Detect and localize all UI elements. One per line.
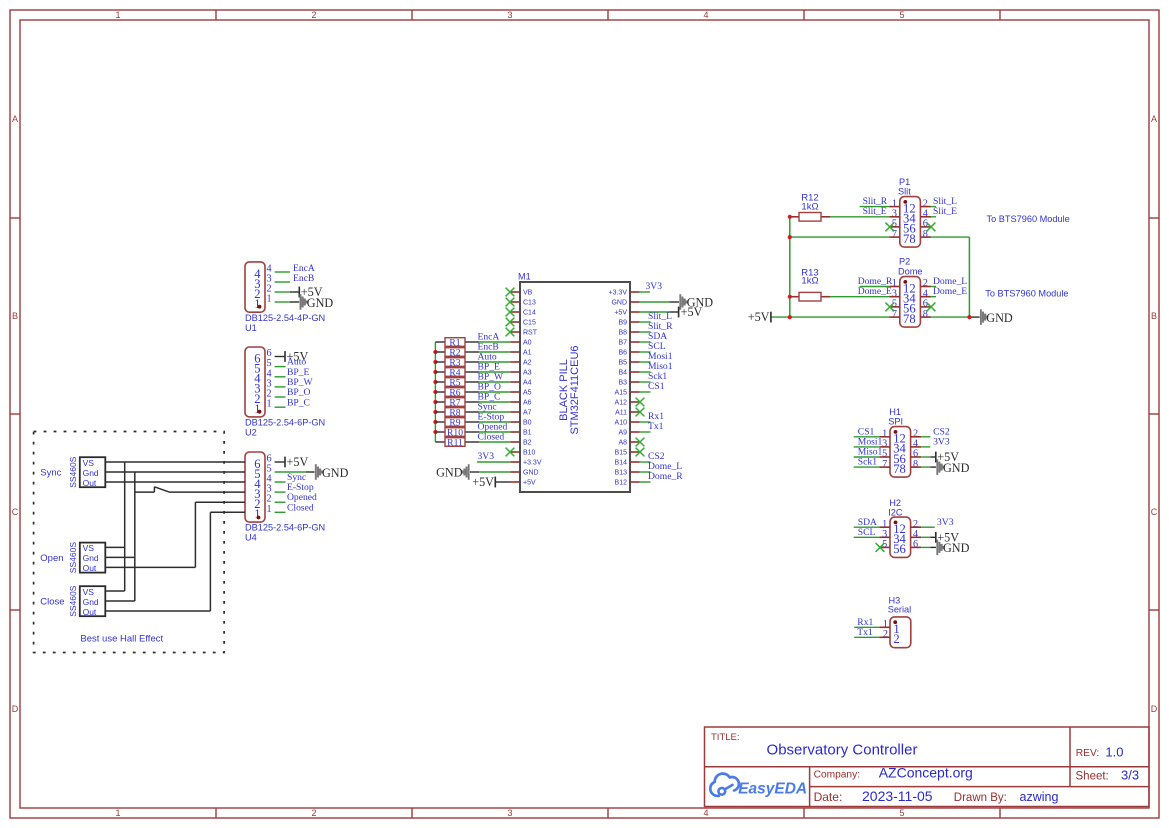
net label Rx1 on H3 pin 1 [854,617,879,628]
svg-text:B1: B1 [523,430,532,437]
svg-text:A8: A8 [618,440,627,447]
svg-text:B12: B12 [615,480,628,487]
net label EncA on U1 pin 4 [293,263,315,274]
resistor bus wire on left of R1-R11 [434,342,436,442]
svg-text:R11: R11 [447,437,463,448]
svg-text:2: 2 [883,629,888,640]
net label Miso1 on M1 pin B4 [640,361,673,372]
svg-text:B7: B7 [618,340,627,347]
no-connect X on P1 pin 6 [927,223,936,232]
svg-text:4: 4 [703,10,708,20]
svg-text:8: 8 [913,459,918,470]
net label Closed [478,432,505,443]
net label Slit_R on M1 pin B8 [640,321,674,332]
svg-text:EasyEDA: EasyEDA [738,781,807,798]
svg-text:1: 1 [267,504,272,515]
svg-text:Closed: Closed [478,432,505,443]
net label Dome_E on P2 pin 3 wire from R13 [830,286,892,297]
net label SCL on H2 pin 3 [854,527,880,538]
svg-text:3V3: 3V3 [933,437,950,448]
net label BP_C on U2 [287,397,310,408]
svg-text:P2: P2 [899,257,910,267]
svg-text:Company:: Company: [814,770,860,781]
svg-text:A7: A7 [523,410,532,417]
svg-text:REV:: REV: [1076,748,1099,759]
svg-text:1kΩ: 1kΩ [801,275,818,286]
svg-text:Tx1: Tx1 [857,627,873,638]
net label Tx1 on H3 pin 2 [854,627,879,638]
net label BP_E on U2 [287,367,310,378]
svg-text:Sck1: Sck1 [858,457,877,468]
svg-text:A9: A9 [618,430,627,437]
svg-text:+5V: +5V [472,475,494,489]
svg-text:DB125-2.54-4P-GN: DB125-2.54-4P-GN [245,313,325,323]
svg-text:EncB: EncB [293,273,314,284]
wire Gnd net from sensors to U4 pin 5 [105,472,245,601]
connector H1 SPI [879,407,921,477]
wire P1 pin 8 to GND bus [930,236,969,238]
no-connect X on H2 pin 5 [876,543,885,552]
net label Dome_R on P2 pin 1 [858,276,893,287]
svg-text:1.0: 1.0 [1105,744,1123,759]
svg-text:+5V: +5V [614,310,627,317]
net label 3V3 on H1 pin 4 [921,437,950,448]
svg-text:SS460S: SS460S [68,456,78,488]
svg-text:1: 1 [267,294,272,305]
svg-text:7: 7 [882,459,887,470]
GND flag left of M1 [436,464,469,480]
GND bus vertical wire right of P1 P2 [969,237,979,317]
svg-text:B3: B3 [618,380,627,387]
svg-text:Dome: Dome [898,267,923,277]
net label Slit_L on M1 pin B9 [640,311,673,322]
svg-text:B13: B13 [615,470,628,477]
svg-text:B6: B6 [618,350,627,357]
wire M1 GND pin to ground [640,301,679,303]
no-connect X marks on M1 right pins A12 A11 A8 B15 [636,398,645,457]
connector H2 I2C [879,498,921,557]
svg-text:Slit: Slit [898,187,911,197]
net label CS1 on H1 [854,426,880,437]
wire +5V bus to P1 pin 7 [790,236,889,238]
wire net Opened to M1 pin B1 [479,431,510,433]
svg-text:2023-11-05: 2023-11-05 [862,788,933,804]
ground symbol on U1 pin 1 [290,294,333,310]
net label Sync [478,402,497,413]
svg-text:Gnd: Gnd [83,597,99,607]
net label Tx1 on M1 pin A9 [640,421,664,432]
svg-text:B14: B14 [615,460,628,467]
ground symbol on M1 left pin GND [470,471,510,473]
net label BP_O [478,382,502,393]
wire net BP_W to M1 pin A4 [479,381,510,383]
wire sensor Sync Out to U4 pin 4 [105,481,245,483]
annotation To BTS7960 Module (Dome) [985,289,1068,299]
hall sensor B3 SS460S (Close) [40,585,105,617]
svg-text:GND: GND [943,541,970,555]
wire M1 +5V pin to +5V flag [640,311,679,313]
svg-text:3V3: 3V3 [646,281,663,292]
svg-text:Best use Hall Effect: Best use Hall Effect [80,634,163,645]
net label EncB on U1 pin 3 [293,273,314,284]
+5V power symbol right of M1 [679,305,703,319]
ground symbol on H1 pin 8 [921,459,969,475]
connector U2 DB125-2.54-6P-GN [245,347,325,438]
svg-text:Dome_E: Dome_E [858,286,892,297]
wire net Sync to M1 pin A7 [479,411,510,413]
svg-text:5: 5 [899,808,904,818]
svg-text:Gnd: Gnd [83,468,99,478]
svg-text:Serial: Serial [888,605,912,615]
svg-text:1: 1 [254,297,260,311]
svg-text:A6: A6 [523,400,532,407]
svg-text:2: 2 [311,808,316,818]
svg-text:To BTS7960 Module: To BTS7960 Module [985,289,1068,299]
wire sensor Close Out to U4 pin 1 [105,512,245,611]
no-connect X on P2 pin 6 [927,303,936,312]
svg-text:1: 1 [267,399,272,410]
ground symbol on U4 pin 5 [275,464,349,480]
resistor R4 [435,367,479,378]
svg-text:+3.3V: +3.3V [609,290,628,297]
svg-text:A15: A15 [615,390,628,397]
net label Sck1 on H1 [854,457,880,468]
svg-text:6: 6 [900,542,906,556]
svg-text:SS460S: SS460S [68,585,78,617]
svg-text:+5V: +5V [523,480,536,487]
net label CS2 on H1 pin 2 [921,426,950,437]
svg-text:VS: VS [83,587,95,597]
+5V power symbol on U4 pin 6 [275,455,309,469]
svg-text:GND: GND [436,466,463,480]
svg-text:4: 4 [703,808,708,818]
net label SCL on M1 pin B6 [640,341,666,352]
svg-text:GND: GND [611,300,627,307]
svg-text:A: A [12,114,18,124]
svg-text:3V3: 3V3 [478,451,495,462]
net label Auto [478,352,497,363]
svg-text:B: B [12,311,18,321]
svg-text:A3: A3 [523,370,532,377]
svg-text:Slit_E: Slit_E [863,206,887,217]
svg-text:Gnd: Gnd [83,553,99,563]
svg-text:3: 3 [507,808,512,818]
svg-text:C15: C15 [523,320,536,327]
svg-text:Tx1: Tx1 [648,421,664,432]
wire sensor Open Out to U4 pin 2 [105,502,245,567]
net label Dome_L on M1 pin B13 [640,461,683,472]
svg-text:2: 2 [893,632,899,646]
svg-text:GND: GND [986,311,1013,325]
svg-text:M1: M1 [518,272,531,282]
svg-text:D: D [12,704,19,714]
hall sensor B2 SS460S (Open) [40,542,105,574]
svg-text:B2: B2 [523,440,532,447]
ground symbol right of P2 [981,309,1013,325]
svg-text:DB125-2.54-6P-GN: DB125-2.54-6P-GN [245,523,325,533]
wire net BP_E to M1 pin A3 [479,371,510,373]
net label SDA on H2 pin 1 [854,517,880,528]
connector P2 Dome [889,257,931,328]
E-Stop switch wire to U4 pin 3 [135,487,245,493]
resistor R7 [435,397,479,408]
wire net E-Stop to M1 pin B0 [479,421,510,423]
net label Sync on U4 [287,472,306,483]
svg-text:Slit_E: Slit_E [933,206,957,217]
svg-text:8: 8 [909,232,915,246]
resistor R2 [435,347,479,358]
svg-text:Out: Out [83,607,97,617]
wire P2 pin 8 to GND [930,316,969,318]
svg-text:SS460S: SS460S [68,542,78,574]
net label BP_W on U2 [287,377,314,388]
no-connect X on P2 pin 5 [885,303,894,312]
svg-text:+5V: +5V [287,455,309,469]
svg-text:Closed: Closed [287,502,314,513]
svg-text:U1: U1 [245,323,257,333]
net label E-Stop [478,412,505,423]
svg-text:U4: U4 [245,533,257,543]
net label 3V3 on M1 left pin +3.3V [477,451,510,462]
connector H3 Serial [879,595,911,647]
M1 left pin stubs and pin names [510,290,542,487]
net label Rx1 on M1 pin A10 [640,411,665,422]
wire net EncA to M1 pin A0 [479,341,510,343]
svg-text:B9: B9 [618,320,627,327]
svg-text:2: 2 [311,10,316,20]
svg-text:A5: A5 [523,390,532,397]
net label Dome_E on P2 pin 4 [930,286,967,297]
wire net Auto to M1 pin A2 [479,361,510,363]
net label Slit_L on P1 pin 2 [930,196,957,207]
svg-text:+5V: +5V [748,310,770,324]
ground symbol on H2 pin 6 [921,540,969,556]
net label CS1 on M1 pin A15 [640,381,665,392]
connector U1 DB125-2.54-4P-GN [245,262,325,333]
+5V power symbol on U2 pin 6 [275,350,309,364]
svg-text:B8: B8 [618,330,627,337]
connector P1 Slit [889,177,931,247]
svg-text:C: C [12,507,19,517]
net label EncA [478,332,500,343]
svg-text:SPI: SPI [888,417,903,427]
svg-text:GND: GND [523,470,539,477]
svg-text:A2: A2 [523,360,532,367]
svg-text:A: A [1151,114,1157,124]
connector U4 DB125-2.54-6P-GN [245,452,325,543]
svg-text:H2: H2 [889,498,901,508]
net label BP_W [478,372,505,383]
wire net BP_C to M1 pin A6 [479,401,510,403]
svg-text:VS: VS [83,458,95,468]
net label CS2 on M1 pin B14 [640,451,665,462]
svg-text:Drawn By:: Drawn By: [954,792,1007,804]
svg-text:Observatory Controller: Observatory Controller [767,742,918,759]
svg-text:Dome_R: Dome_R [648,471,683,482]
dashed enclosure Best use Hall Effect [34,432,225,653]
svg-text:5: 5 [899,10,904,20]
svg-text:STM32F411CEU6: STM32F411CEU6 [569,345,581,434]
junction dot at GND bus [967,315,971,319]
wire net BP_O to M1 pin A5 [479,391,510,393]
resistor R5 [435,377,479,388]
svg-text:C13: C13 [523,300,536,307]
net label 3V3 on H2 pin 2 [921,517,954,528]
svg-text:C14: C14 [523,310,536,317]
svg-text:P1: P1 [899,177,910,187]
title block [705,727,1150,807]
junction dots on resistor bus [433,350,437,434]
net label BP_E [478,362,501,373]
svg-text:B15: B15 [615,450,628,457]
no-connect X marks on M1 left pins VB C13 C14 C15 RST B10 [506,288,515,457]
svg-text:A12: A12 [615,400,628,407]
net label Mosi1 on M1 pin B5 [640,351,673,362]
+5V power symbol on H1 pin 6 [921,450,959,464]
svg-text:A4: A4 [523,380,532,387]
resistor R13 1k&#937; [790,268,831,301]
svg-text:GND: GND [322,466,349,480]
net label Slit_E on P1 pin 4 [930,206,957,217]
net label Auto on U2 [287,357,306,368]
svg-text:U2: U2 [245,428,257,438]
wire VS net from sensors to U4 pin 6 [105,462,245,591]
net label Slit_R on P1 pin 1 [860,196,890,207]
hall sensor B1 SS460S (Sync) [40,456,105,488]
svg-text:6: 6 [913,539,918,550]
svg-text:DB125-2.54-6P-GN: DB125-2.54-6P-GN [245,417,325,427]
resistor R3 [435,357,479,368]
svg-text:Dome_E: Dome_E [933,286,967,297]
svg-text:H1: H1 [889,407,901,417]
resistor R11 [435,437,479,448]
svg-text:B0: B0 [523,420,532,427]
+5V bus vertical wire left of P1 P2 [771,217,889,317]
resistor R6 [435,387,479,398]
net label Slit_E on P1 pin 3 wire from R12 [830,206,889,217]
net label Opened [478,422,508,433]
svg-text:Date:: Date: [814,790,843,804]
svg-text:Open: Open [40,553,63,564]
svg-text:D: D [1151,704,1158,714]
svg-text:1kΩ: 1kΩ [801,202,818,213]
svg-text:To BTS7960 Module: To BTS7960 Module [987,214,1070,224]
resistor R10 [435,427,479,438]
resistor R9 [435,417,479,428]
svg-text:AZConcept.org: AZConcept.org [879,765,973,781]
+5V power symbol on U1 pin 2 [290,285,323,299]
svg-text:A10: A10 [615,420,628,427]
svg-text:Sheet:: Sheet: [1076,770,1109,782]
net label Mosi1 on H1 [854,437,883,448]
svg-text:TITLE:: TITLE: [711,732,740,743]
svg-text:Out: Out [83,478,97,488]
svg-text:RST: RST [523,330,538,337]
junction dots on +5V bus [788,215,792,320]
no-connect X on P1 pin 5 [885,223,894,232]
svg-text:Sync: Sync [40,468,61,479]
net label Dome_R on M1 pin B12 [640,471,684,482]
svg-text:GND: GND [307,296,334,310]
net label Sck1 on M1 pin B3 [640,371,668,382]
+5V power symbol feeding P1 P2 [748,310,771,324]
net label SDA on M1 pin B7 [640,331,668,342]
svg-text:Close: Close [40,597,64,608]
+5V power symbol on H2 pin 4 [921,531,959,545]
svg-text:Out: Out [83,563,97,573]
svg-text:VS: VS [83,543,95,553]
svg-text:VB: VB [523,290,533,297]
wire net EncB to M1 pin A1 [479,351,510,353]
svg-text:3: 3 [507,10,512,20]
svg-text:1: 1 [115,808,120,818]
svg-text:A11: A11 [615,410,627,417]
net label E-Stop on U4 [287,482,314,493]
svg-text:I2C: I2C [888,508,903,518]
svg-text:B5: B5 [618,360,627,367]
net label BP_C [478,392,501,403]
resistor R1 [435,337,479,348]
svg-text:3/3: 3/3 [1121,768,1139,783]
svg-text:CS1: CS1 [648,381,665,392]
svg-text:1: 1 [254,402,260,416]
svg-text:A0: A0 [523,340,532,347]
svg-text:8: 8 [900,462,906,476]
svg-text:8: 8 [909,312,915,326]
M1 right pin stubs and pin names [609,290,640,487]
svg-text:BP_C: BP_C [287,397,310,408]
svg-text:C: C [1151,507,1158,517]
microcontroller module M1 BLACK PILL STM32F411CEU6 [518,272,630,493]
svg-text:B10: B10 [523,450,536,457]
net label Miso1 on H1 [854,447,883,458]
+5V power symbol on M1 left pin +5V [472,475,510,489]
net label Opened on U4 [287,492,317,503]
resistor R12 1k&#937; [790,193,831,221]
svg-text:+5V: +5V [681,305,703,319]
EasyEDA logo [710,774,807,798]
wire net Closed to M1 pin B2 [479,441,510,443]
svg-text:+3.3V: +3.3V [523,460,542,467]
annotation To BTS7960 Module (Slit) [987,214,1070,224]
ground symbol right of M1 [680,294,713,310]
svg-text:1: 1 [115,10,120,20]
net label Closed on U4 [287,502,314,513]
svg-text:azwing: azwing [1020,790,1059,804]
svg-text:3V3: 3V3 [937,517,954,528]
svg-text:B: B [1151,311,1157,321]
net label Dome_L on P2 pin 2 [930,276,967,287]
svg-text:GND: GND [943,461,970,475]
svg-text:A1: A1 [523,350,532,357]
svg-text:SCL: SCL [858,527,876,538]
net label BP_O on U2 [287,387,311,398]
net label EncB [478,342,499,353]
svg-text:B4: B4 [618,370,627,377]
resistor R8 [435,407,479,418]
net label 3V3 on M1 right pin +3.3V [640,281,663,292]
